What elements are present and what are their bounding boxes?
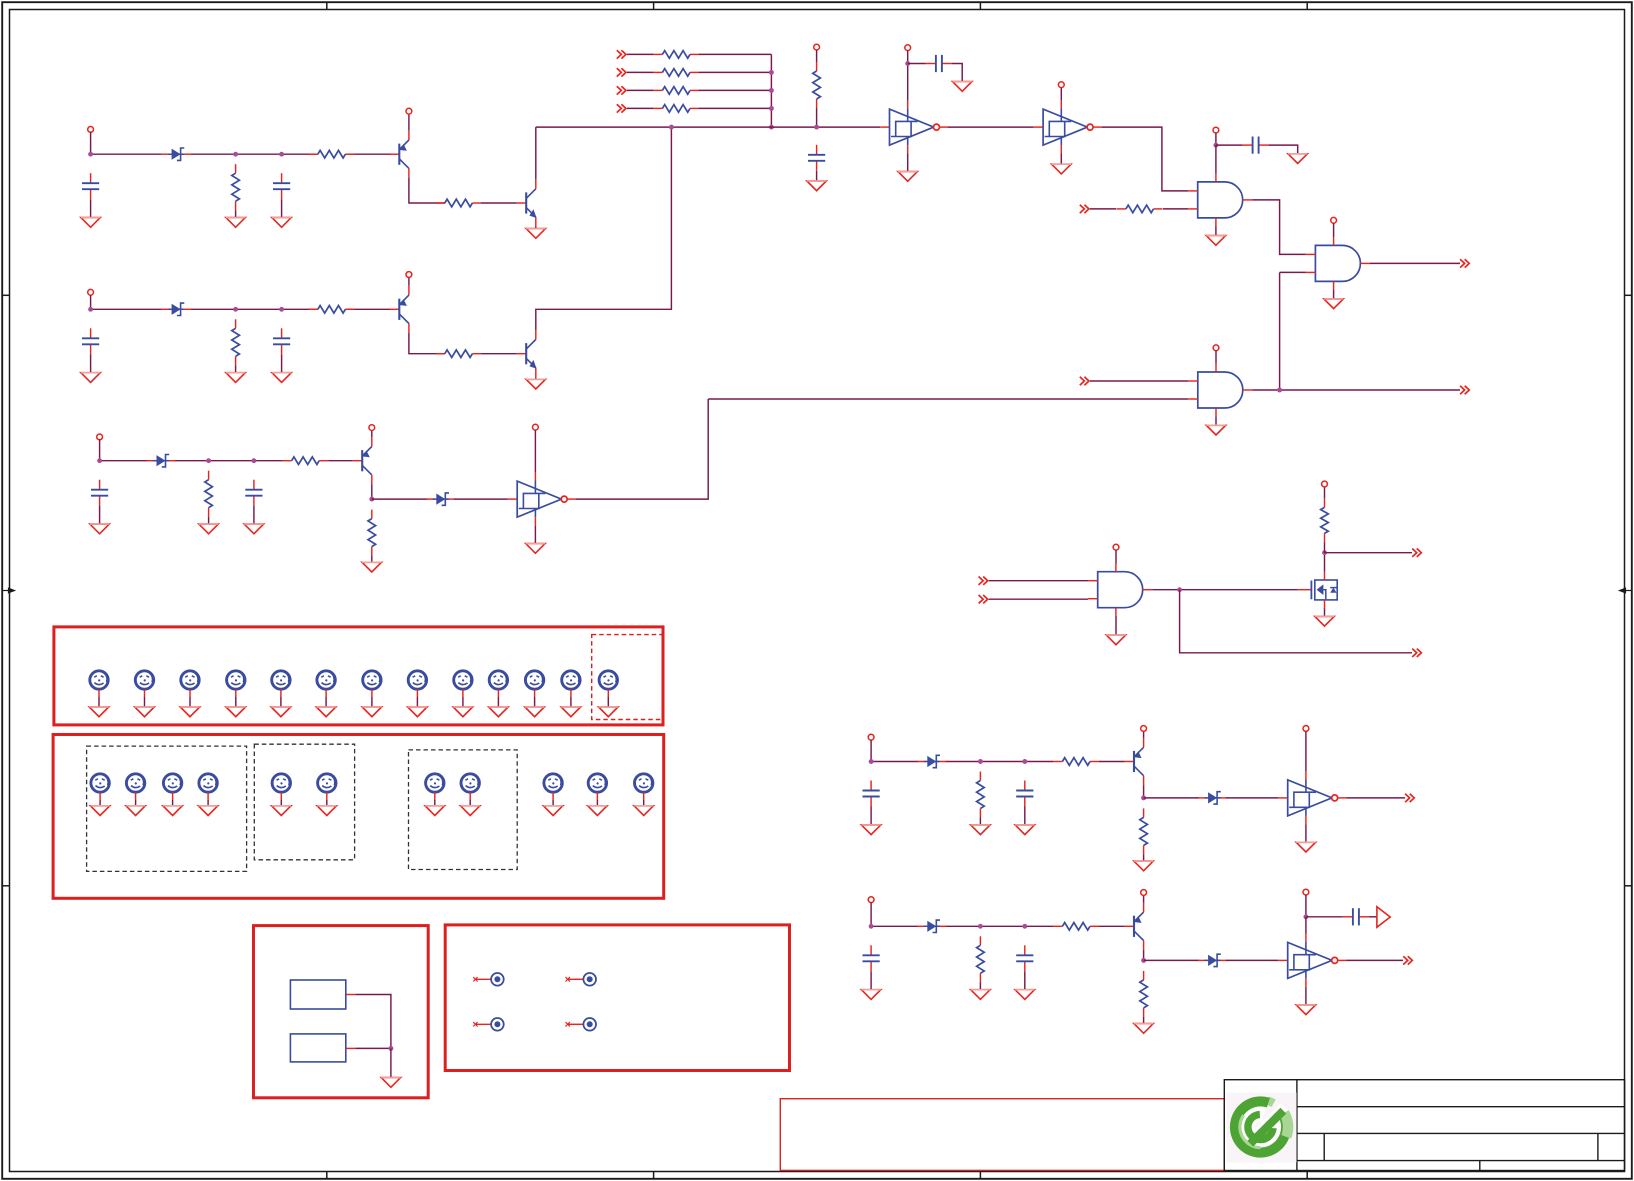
- junction: [978, 924, 983, 929]
- wire: [235, 697, 237, 707]
- capacitor C2b: [273, 328, 290, 354]
- wire: [1216, 144, 1243, 146]
- ground: [489, 707, 508, 717]
- red group box 1: [54, 627, 663, 725]
- wire: [99, 800, 101, 806]
- indicator LED6: [317, 671, 335, 697]
- wire: [1370, 262, 1460, 264]
- wire: [1305, 987, 1307, 1005]
- ground: [90, 806, 109, 816]
- wire: [870, 807, 872, 825]
- indicator LED18: [272, 774, 290, 800]
- capacitor C12: [1243, 137, 1269, 154]
- wire: [871, 925, 918, 927]
- ground: [408, 707, 427, 717]
- wire: [90, 295, 92, 309]
- transistor Q2a: [390, 286, 409, 333]
- junction: [1022, 759, 1027, 764]
- ground: [244, 524, 263, 534]
- wire: [1252, 389, 1460, 391]
- wire: [454, 498, 508, 500]
- circuit block 2: [81, 127, 672, 389]
- wire: [90, 354, 92, 372]
- ground: [1015, 990, 1034, 1000]
- wire: [371, 484, 373, 499]
- wire: [1143, 854, 1145, 861]
- wire: [1102, 127, 1189, 191]
- ground: [1134, 1024, 1153, 1034]
- zener diode D3a: [147, 455, 176, 467]
- wire: [416, 697, 418, 707]
- ground: [81, 373, 100, 383]
- wire: [371, 697, 373, 707]
- ground: [135, 707, 154, 717]
- wire: [1180, 590, 1412, 653]
- wire: [372, 498, 428, 500]
- schmitt buffer U2 group: [1034, 82, 1188, 191]
- red group box 2: [53, 735, 664, 899]
- test socket J3: [473, 973, 504, 986]
- resistor R2a: [232, 319, 240, 365]
- wire: [1215, 133, 1217, 145]
- ground: [1015, 825, 1034, 835]
- MOSFET Q6 group: [1298, 481, 1422, 626]
- pin P16: [1113, 544, 1119, 550]
- indicator LED8: [408, 671, 426, 697]
- port OUT1: [1460, 259, 1469, 267]
- pin P5c: [1303, 889, 1309, 895]
- wire: [253, 506, 255, 524]
- resistor R2c: [436, 350, 482, 358]
- wire: [870, 971, 872, 989]
- port IN5: [1080, 205, 1089, 213]
- indicator LED2: [135, 671, 153, 697]
- wire: [989, 580, 1088, 582]
- wire: [1215, 226, 1217, 236]
- wire: [816, 50, 818, 62]
- junction: [388, 1046, 393, 1051]
- pin P11: [905, 45, 911, 51]
- wire: [345, 153, 390, 155]
- ground: [163, 806, 182, 816]
- ground: [525, 707, 544, 717]
- junction: [769, 88, 774, 93]
- junction: [88, 307, 93, 312]
- ground: [381, 1078, 400, 1088]
- zener diode D4a: [917, 755, 946, 767]
- indicator LED19: [318, 774, 336, 800]
- test socket J5: [473, 1018, 504, 1031]
- transistor Q4: [1125, 738, 1144, 785]
- resistor R5c: [1140, 971, 1148, 1017]
- ground: [526, 544, 545, 554]
- resistor R1b: [309, 150, 355, 158]
- schmitt buffer U5: [1278, 934, 1346, 987]
- wire: [207, 800, 209, 806]
- wire: [99, 506, 101, 524]
- ground: [1296, 842, 1315, 852]
- pin P2: [88, 289, 94, 295]
- wire: [952, 64, 962, 82]
- junction: [233, 152, 238, 157]
- wire: [191, 308, 318, 310]
- junction: [1141, 958, 1146, 963]
- indicator LED7: [363, 671, 381, 697]
- junction: [251, 458, 256, 463]
- ground: [126, 806, 145, 816]
- wire: [1252, 200, 1306, 255]
- wire: [1333, 290, 1335, 299]
- MOSFET Q6: [1298, 571, 1338, 608]
- wire: [1280, 271, 1306, 273]
- junction: [1177, 587, 1182, 592]
- resistor R5a: [977, 936, 985, 982]
- wire: [469, 800, 471, 806]
- junction: [1322, 550, 1327, 555]
- wire: [576, 399, 709, 499]
- capacitor C1b: [273, 173, 290, 199]
- port OUT4: [1412, 649, 1421, 657]
- resistor R4a: [977, 772, 985, 818]
- wire: [434, 800, 436, 806]
- wire: [1324, 609, 1326, 617]
- red group box 3: [254, 926, 429, 1098]
- ground: [543, 806, 562, 816]
- resistor R4b: [1053, 758, 1099, 766]
- wire: [1099, 925, 1125, 927]
- wire: [1024, 807, 1026, 825]
- ground: [588, 806, 607, 816]
- ground: [362, 562, 381, 572]
- wire: [945, 761, 1053, 763]
- ground: [599, 707, 618, 717]
- ground: [971, 990, 990, 1000]
- ground: [461, 806, 480, 816]
- pin P4a: [868, 734, 874, 740]
- wire: [1099, 761, 1125, 763]
- wire: [816, 171, 818, 181]
- wire: [408, 114, 410, 131]
- capacitor C1a: [82, 173, 99, 199]
- junction: [206, 458, 211, 463]
- wire: [607, 697, 609, 707]
- capacitor C11: [926, 55, 952, 72]
- black dashed box A: [87, 746, 247, 871]
- wire: [1090, 208, 1117, 210]
- port OUT5: [1405, 794, 1414, 802]
- indicator LED13: [599, 671, 617, 697]
- transistor Q1a: [390, 131, 409, 178]
- resistor R11: [653, 69, 699, 77]
- pin P4b: [1141, 726, 1147, 732]
- wire: [1369, 916, 1377, 918]
- wire: [1144, 959, 1200, 961]
- connector J1: [290, 980, 355, 1009]
- wire: [325, 697, 327, 707]
- wire: [1163, 208, 1188, 210]
- wire: [281, 199, 283, 217]
- wire: [979, 982, 981, 989]
- wire: [570, 697, 572, 707]
- ground: [898, 172, 917, 182]
- wire: [534, 430, 536, 473]
- port IN4: [617, 104, 626, 112]
- transistor Q1b: [517, 179, 537, 226]
- circuit block 5: [861, 889, 1412, 1033]
- ground: [226, 218, 245, 228]
- capacitor C2a: [82, 328, 99, 354]
- pin P14: [1331, 217, 1337, 223]
- wire: [1346, 959, 1403, 961]
- wire: [408, 277, 410, 286]
- wire: [1226, 797, 1278, 799]
- wire: [1305, 824, 1307, 842]
- test socket J6: [566, 1018, 597, 1031]
- transistor Q3: [353, 437, 372, 484]
- pin P12: [1058, 82, 1064, 88]
- wire: [1305, 895, 1307, 917]
- AND gate U6 group: [979, 544, 1422, 657]
- resistor R5b: [1053, 923, 1099, 931]
- resistor R2b: [309, 306, 355, 314]
- capacitor C3a: [91, 480, 108, 506]
- wire: [135, 800, 137, 806]
- zener diode D3b: [426, 493, 455, 505]
- wire: [1306, 916, 1343, 918]
- junction: [369, 497, 374, 502]
- indicator LED17: [199, 774, 217, 800]
- wire: [409, 333, 445, 354]
- wire: [1143, 785, 1145, 798]
- ground: [1296, 1005, 1315, 1015]
- wire: [907, 51, 909, 64]
- junction: [1303, 914, 1308, 919]
- wire: [90, 132, 92, 154]
- wire: [699, 89, 772, 91]
- wire: [535, 377, 537, 379]
- wire: [345, 308, 390, 310]
- indicator LED4: [227, 671, 245, 697]
- wire: [699, 53, 772, 55]
- zener diode D2: [162, 303, 191, 315]
- port IN2: [617, 68, 626, 76]
- wire: [816, 108, 818, 127]
- junction: [233, 307, 238, 312]
- schmitt buffer U4: [1278, 771, 1346, 824]
- zener diode D4b: [1198, 792, 1227, 804]
- junction: [769, 70, 774, 75]
- wire: [280, 800, 282, 806]
- pin P5a: [868, 897, 874, 903]
- wire: [281, 354, 283, 372]
- schmitt buffer U2: [1034, 101, 1102, 154]
- junction: [814, 125, 819, 130]
- port IN8: [979, 595, 988, 603]
- title block: [1224, 1080, 1624, 1171]
- indicator LED12: [562, 671, 580, 697]
- zener diode D5a: [917, 920, 946, 932]
- ground: [226, 373, 245, 383]
- wire: [497, 697, 499, 707]
- indicator LED21: [461, 774, 479, 800]
- capacitor C3b: [245, 480, 262, 506]
- ground: [1324, 299, 1343, 309]
- junction: [1022, 924, 1027, 929]
- connector J2: [290, 1034, 355, 1062]
- circuit block 3: [90, 399, 708, 572]
- resistor R12: [653, 87, 699, 95]
- wire: [175, 460, 283, 462]
- port IN1: [617, 50, 626, 58]
- wire: [1215, 351, 1217, 364]
- wire: [1143, 1017, 1145, 1024]
- ground: [1206, 425, 1225, 435]
- ground: [453, 707, 472, 717]
- pin P1: [88, 126, 94, 132]
- wire: [699, 71, 772, 73]
- wire: [1305, 731, 1307, 771]
- wire: [908, 63, 926, 65]
- pin P15: [1213, 345, 1219, 351]
- red dashed box: [592, 635, 663, 720]
- wire: [371, 556, 373, 563]
- wire: [90, 199, 92, 217]
- wire: [536, 127, 672, 330]
- main net wire: [536, 126, 880, 128]
- resistor R3c: [368, 510, 376, 556]
- circuit block 1: [81, 108, 546, 238]
- junction: [905, 61, 910, 66]
- wire: [100, 460, 148, 462]
- wire: [1324, 542, 1326, 552]
- ground: [526, 379, 545, 389]
- wire: [534, 526, 536, 544]
- junction: [1141, 795, 1146, 800]
- wire: [945, 925, 1053, 927]
- port OUT3: [1412, 549, 1421, 557]
- wire: [1226, 959, 1278, 961]
- red group box 4: [445, 925, 789, 1071]
- wire: [1324, 553, 1326, 572]
- indicator LED16: [163, 774, 181, 800]
- wire: [1143, 950, 1145, 961]
- AND gate U5 group: [708, 345, 1469, 435]
- port IN6: [1080, 377, 1089, 385]
- ground: [226, 707, 245, 717]
- resistor R16: [1117, 205, 1163, 213]
- indicator LED9: [454, 671, 472, 697]
- ground: [807, 181, 826, 191]
- pin P10: [814, 44, 820, 50]
- ground: [272, 373, 291, 383]
- wire: [708, 398, 1188, 400]
- ground: [272, 806, 291, 816]
- wire: [328, 460, 353, 462]
- junction: [978, 759, 983, 764]
- wire: [627, 71, 654, 73]
- wire: [1143, 895, 1145, 903]
- indicator LED11: [525, 671, 543, 697]
- ground: [271, 707, 290, 717]
- wire: [1060, 154, 1062, 165]
- wire: [643, 800, 645, 806]
- indicator LED20: [426, 774, 444, 800]
- wire: [907, 64, 909, 101]
- wire: [552, 800, 554, 806]
- indicator LED10: [489, 671, 507, 697]
- ground: [861, 825, 880, 835]
- wire: [1346, 797, 1405, 799]
- ground: [316, 707, 335, 717]
- capacitor C4a: [863, 781, 880, 807]
- pin P3c: [533, 424, 539, 430]
- wire: [1333, 223, 1335, 237]
- wire: [191, 153, 318, 155]
- schmitt buffer U1: [880, 101, 948, 154]
- wire: [1024, 971, 1026, 989]
- indicator LED15: [126, 774, 144, 800]
- ground: [1134, 861, 1153, 871]
- wire: [280, 697, 282, 707]
- zener diode D1: [162, 148, 191, 160]
- ground: [1288, 154, 1307, 164]
- resistor R1c: [436, 199, 482, 207]
- junction: [769, 106, 774, 111]
- pin P2c: [406, 272, 412, 278]
- wire: [1115, 616, 1117, 635]
- wire: [1090, 380, 1188, 382]
- wire: [1325, 552, 1413, 554]
- ground: [953, 82, 972, 92]
- pin P17: [1322, 481, 1328, 487]
- wire: [99, 440, 101, 461]
- junction: [1213, 143, 1218, 148]
- junction: [769, 125, 774, 130]
- ground: [317, 806, 336, 816]
- ground: [634, 806, 653, 816]
- port OUT6: [1403, 956, 1412, 964]
- ground: [1052, 164, 1071, 174]
- wire: [1060, 88, 1062, 101]
- wire: [870, 902, 872, 926]
- wire: [481, 202, 517, 204]
- indicator LED5: [272, 671, 290, 697]
- wire: [979, 818, 981, 825]
- wire: [1324, 487, 1326, 499]
- wire: [1279, 272, 1281, 390]
- wire: [235, 210, 237, 217]
- black dashed box C: [409, 750, 518, 870]
- wire: [144, 697, 146, 707]
- ground: [89, 707, 108, 717]
- wire: [481, 353, 517, 355]
- wire: [371, 430, 373, 437]
- ground: [971, 825, 990, 835]
- wire: [462, 697, 464, 707]
- zener diode D5b: [1198, 954, 1227, 966]
- wire: [989, 598, 1088, 600]
- wire: [355, 995, 391, 1049]
- resistor R17: [1321, 498, 1329, 542]
- wire: [699, 107, 772, 109]
- indicator LED23: [588, 774, 606, 800]
- AND gate U3: [1188, 174, 1252, 226]
- circuit block 4: [861, 726, 1414, 871]
- ground: [199, 524, 218, 534]
- wire: [208, 517, 210, 524]
- wire: [1215, 416, 1217, 425]
- wire: [627, 89, 654, 91]
